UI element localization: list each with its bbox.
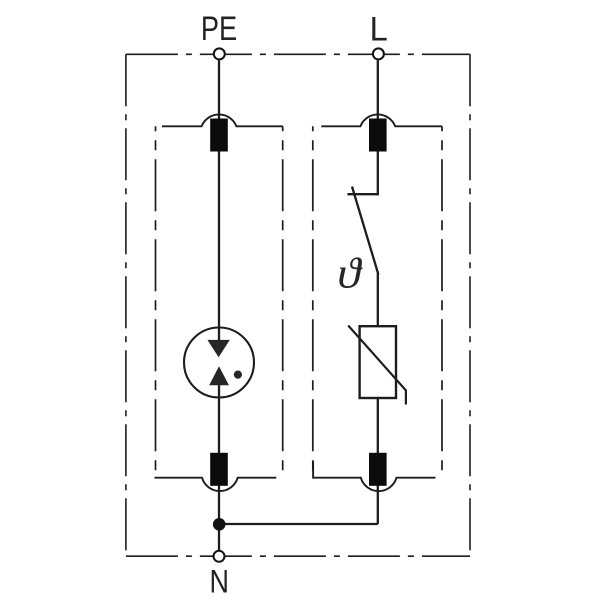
wire top block down to switch [377,151,379,195]
switch fixed contact arm [347,193,377,195]
terminal block PE bottom [210,453,228,486]
svg-text:N: N [209,564,228,600]
wire bottom block to bottom bus [377,485,379,524]
terminal circle L [373,48,384,59]
wire PE terminal to top terminal block [219,60,378,550]
terminal block PE top [210,119,228,152]
spark gap upper electrode (triangle down) [207,340,229,357]
outer enclosure border bottom [126,555,470,557]
terminal block L top [369,119,387,152]
module box 1 top edge with plug-in bump [162,114,283,126]
wire top block to spark gap [218,151,220,342]
svg-text:PE: PE [201,9,237,48]
svg-text:L: L [370,11,388,49]
wire node to N terminal [218,524,220,551]
outer enclosure border right [469,54,471,556]
module box 2 right dashed side [441,126,443,477]
wire L terminal to top terminal block [377,60,379,119]
wire bottom block to node [218,485,220,524]
outer enclosure border left [125,54,127,556]
module box 1 left dashed side [155,126,157,477]
terminal circle N [214,551,225,562]
module box 2 left dashed side [312,126,314,477]
spark gap F1 circle [184,328,254,398]
terminal block N bottom [369,453,387,486]
spark gap lower electrode (triangle up) [209,366,229,385]
wire blade to varistor [377,274,379,328]
varistor diagonal stroke [348,326,406,405]
module box 1 right dashed side [282,126,284,477]
terminal circle PE [214,48,225,59]
junction node dot [213,518,226,531]
switch blade (thermal disconnector) [352,187,378,275]
bottom bus wire to node [219,523,378,525]
module box 1 bottom edge with plug-in bump [155,478,277,491]
wire varistor to bottom block [377,398,379,454]
varistor body [360,326,396,398]
spark gap indicator dot [234,371,242,379]
module box 2 top edge with plug-in bump [321,114,442,126]
wire spark gap to bottom block [218,384,220,453]
module box 2 bottom edge with plug-in bump [313,461,435,491]
outer enclosure border (dash-dot) top [126,53,470,55]
svg-text:ϑ: ϑ [337,250,363,298]
